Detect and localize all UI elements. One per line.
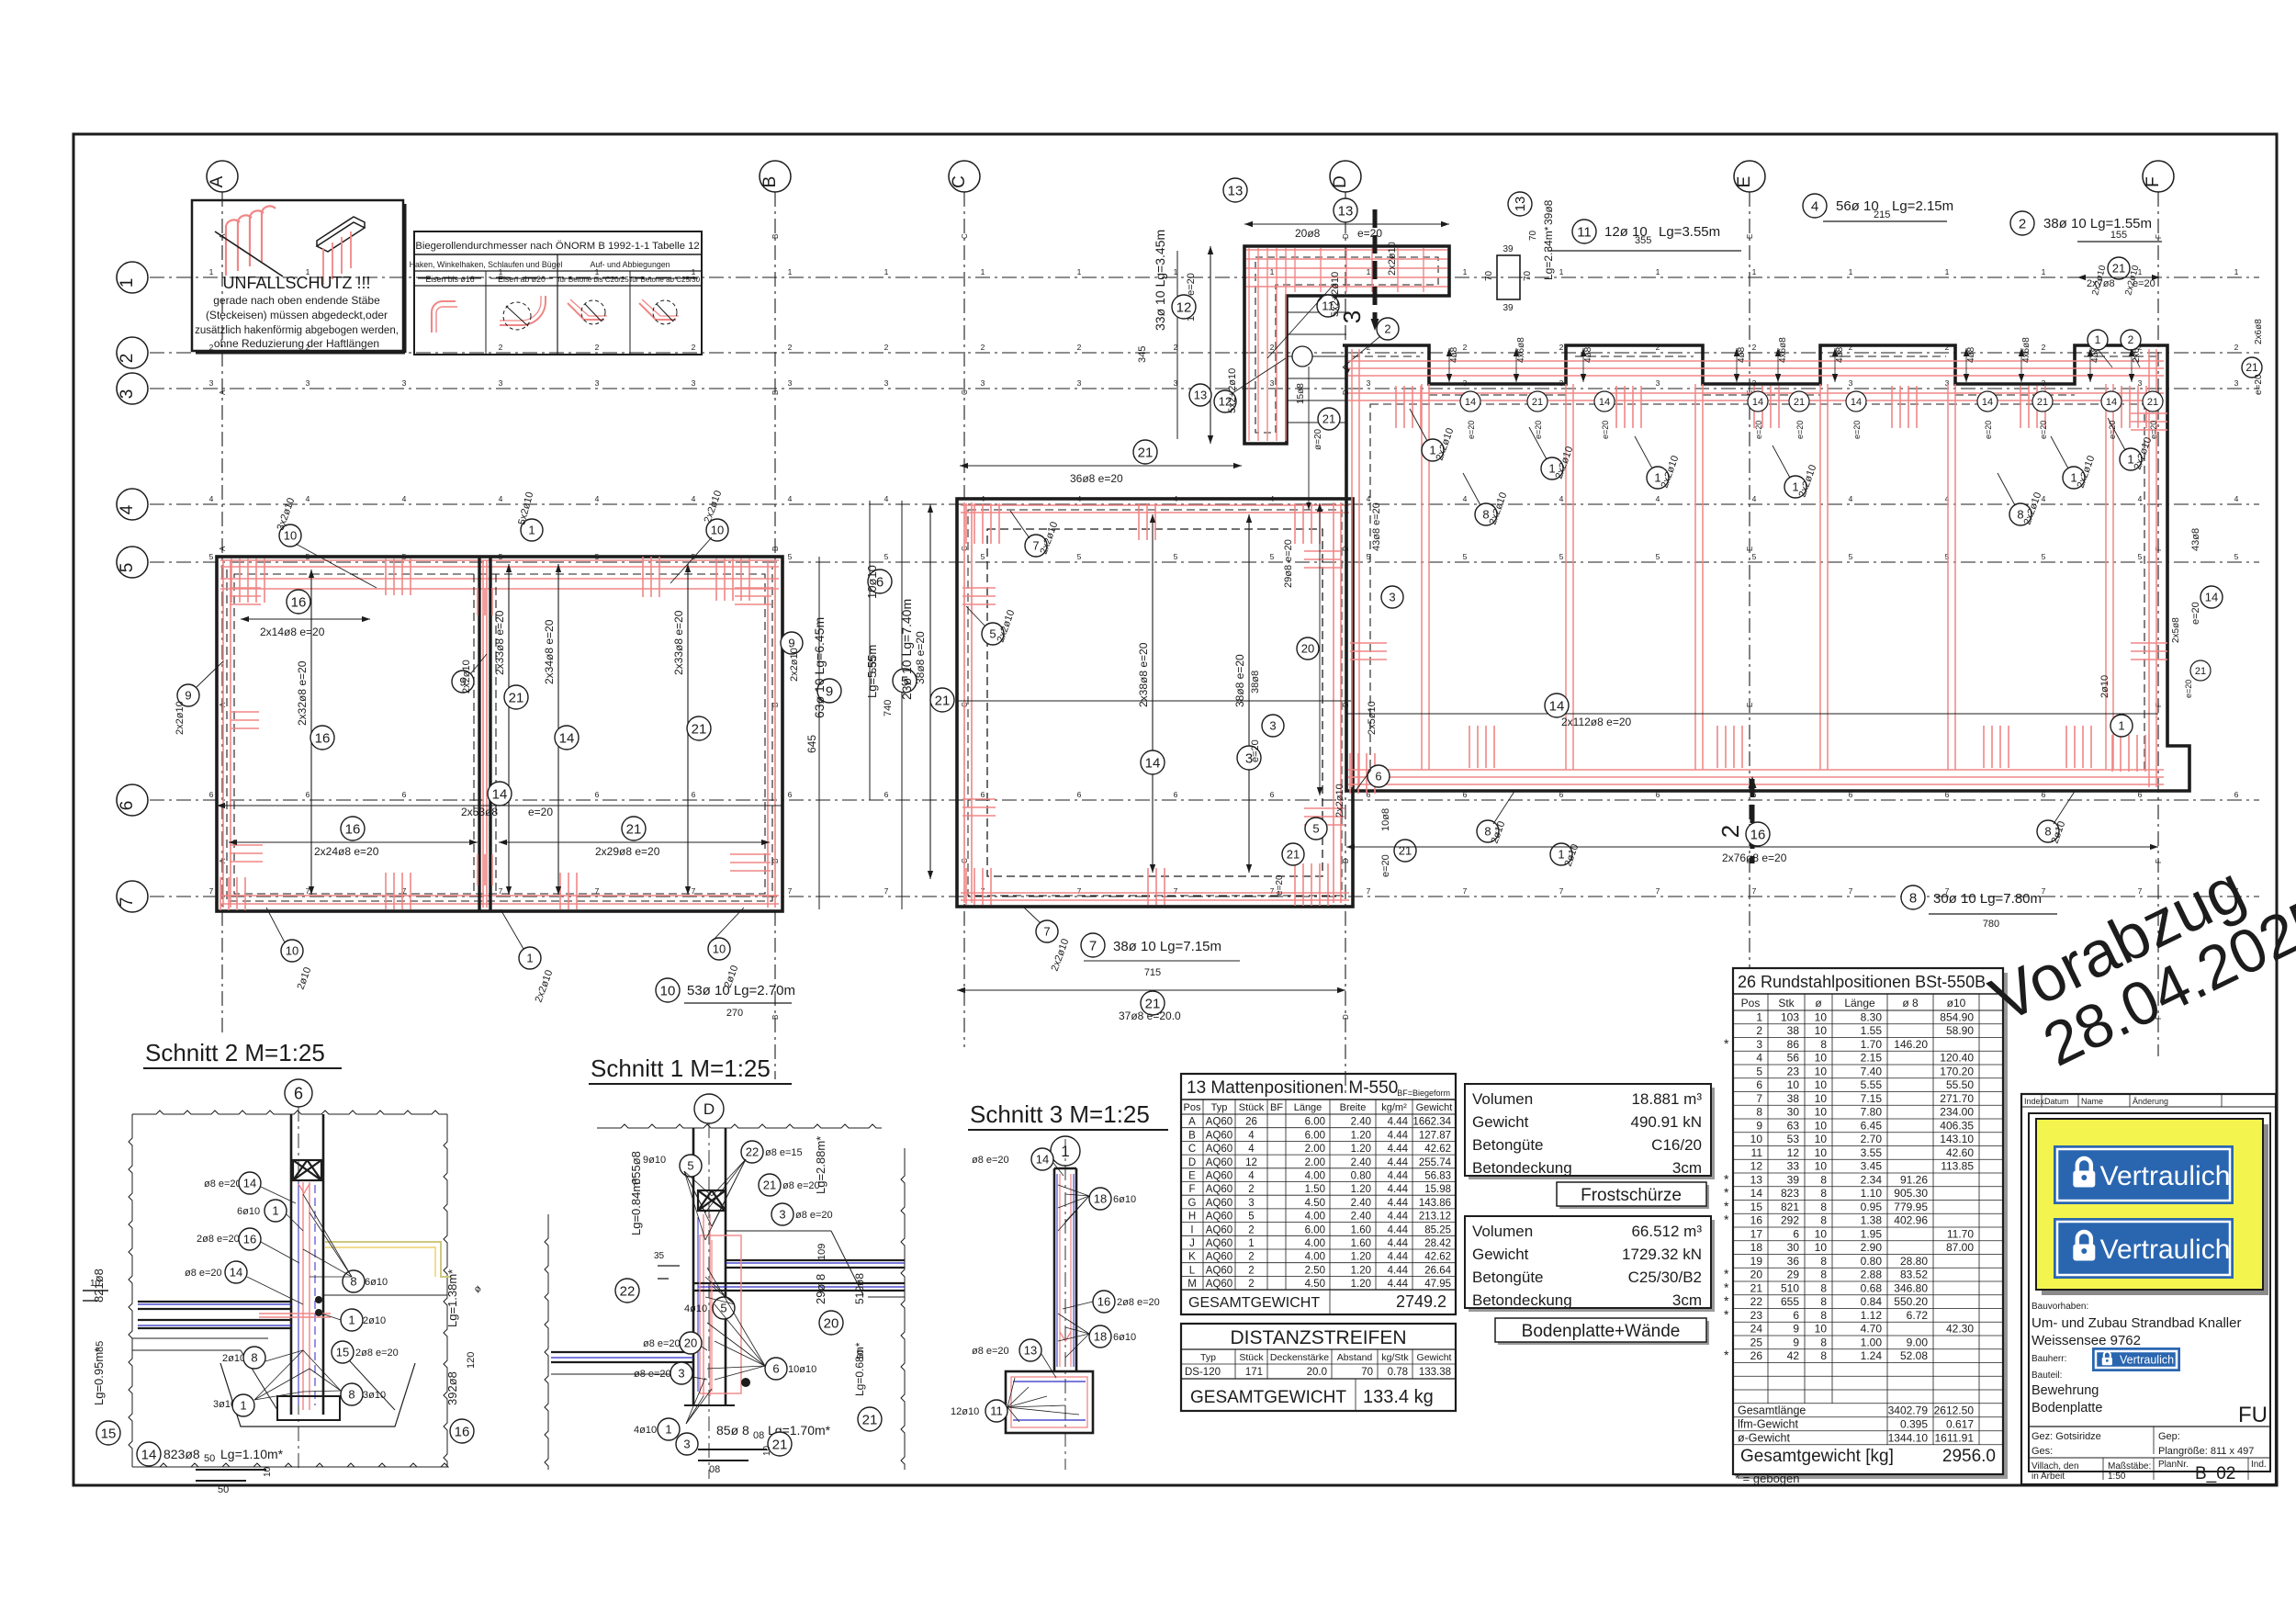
svg-text:1: 1 xyxy=(1463,267,1468,276)
svg-text:10: 10 xyxy=(1815,1160,1828,1173)
svg-text:10: 10 xyxy=(713,942,726,956)
svg-text:56: 56 xyxy=(1787,1052,1800,1065)
svg-text:DISTANZSTREIFEN: DISTANZSTREIFEN xyxy=(1230,1327,1406,1348)
svg-text:5: 5 xyxy=(788,552,793,561)
svg-text:Lg=5.55m: Lg=5.55m xyxy=(865,645,879,698)
svg-text:5: 5 xyxy=(1756,1065,1762,1077)
svg-text:20: 20 xyxy=(684,1336,697,1350)
svg-text:21: 21 xyxy=(1750,1281,1763,1294)
svg-text:ø8 e=20: ø8 e=20 xyxy=(972,1346,1009,1357)
svg-text:kg/m²: kg/m² xyxy=(1381,1102,1407,1113)
svg-text:F: F xyxy=(1188,1184,1195,1195)
svg-text:5: 5 xyxy=(1077,552,1082,561)
svg-text:0.78: 0.78 xyxy=(1388,1367,1408,1378)
svg-text:0.80: 0.80 xyxy=(1861,1255,1883,1268)
svg-text:1: 1 xyxy=(2118,719,2124,733)
svg-text:2x38ø8 e=20: 2x38ø8 e=20 xyxy=(1137,642,1150,707)
svg-text:ø=20: ø=20 xyxy=(1313,428,1323,450)
svg-text:14: 14 xyxy=(230,1266,242,1280)
svg-text:K: K xyxy=(1188,1252,1196,1263)
svg-text:1: 1 xyxy=(1752,267,1757,276)
svg-text:38: 38 xyxy=(1787,1092,1800,1105)
svg-text:2ø8 e=20: 2ø8 e=20 xyxy=(1117,1297,1160,1308)
svg-text:C16/20: C16/20 xyxy=(1651,1136,1702,1154)
svg-text:7: 7 xyxy=(1752,886,1757,896)
svg-text:6: 6 xyxy=(402,790,407,799)
svg-text:1: 1 xyxy=(1559,267,1564,276)
svg-text:1.10: 1.10 xyxy=(1861,1187,1883,1200)
svg-text:14: 14 xyxy=(1599,397,1610,408)
svg-text:3: 3 xyxy=(779,1208,785,1222)
svg-text:4: 4 xyxy=(595,494,600,503)
svg-text:Lg=2.88m*: Lg=2.88m* xyxy=(814,1136,827,1194)
svg-text:e=20: e=20 xyxy=(2254,374,2264,395)
svg-text:4.44: 4.44 xyxy=(1388,1144,1409,1155)
svg-text:823: 823 xyxy=(1781,1187,1799,1200)
svg-text:in Arbeit: in Arbeit xyxy=(2032,1472,2065,1482)
svg-text:6ø10: 6ø10 xyxy=(237,1206,260,1217)
svg-text:12: 12 xyxy=(1787,1146,1800,1159)
svg-text:5.55: 5.55 xyxy=(1861,1078,1883,1091)
svg-text:Auf- und Abbiegungen: Auf- und Abbiegungen xyxy=(590,260,670,269)
svg-text:9: 9 xyxy=(1793,1336,1799,1348)
svg-text:2: 2 xyxy=(1270,343,1275,352)
svg-text:402.96: 402.96 xyxy=(1894,1214,1928,1227)
svg-text:23ø 10 Lg=7.40m: 23ø 10 Lg=7.40m xyxy=(899,599,914,700)
svg-text:e=20: e=20 xyxy=(2149,421,2158,439)
svg-text:7.80: 7.80 xyxy=(1861,1106,1883,1119)
svg-text:20: 20 xyxy=(1750,1269,1763,1281)
svg-text:5x2+2ø10: 5x2+2ø10 xyxy=(1330,272,1341,317)
svg-text:2.40: 2.40 xyxy=(1351,1212,1371,1223)
svg-text:510: 510 xyxy=(1781,1281,1799,1294)
svg-text:14: 14 xyxy=(492,786,508,802)
svg-text:3: 3 xyxy=(678,1367,684,1381)
svg-text:155: 155 xyxy=(2110,230,2127,241)
svg-text:5: 5 xyxy=(1312,822,1319,836)
svg-text:6: 6 xyxy=(209,790,214,799)
svg-text:70: 70 xyxy=(1484,270,1494,281)
svg-text:15ø8: 15ø8 xyxy=(1296,383,1306,404)
svg-text:AQ60: AQ60 xyxy=(1206,1198,1232,1209)
svg-text:21: 21 xyxy=(2112,262,2125,276)
svg-text:A: A xyxy=(1188,1117,1196,1128)
svg-text:4.70: 4.70 xyxy=(1861,1323,1883,1336)
svg-text:L: L xyxy=(1189,1265,1196,1276)
svg-text:D: D xyxy=(1331,175,1350,188)
svg-text:171: 171 xyxy=(1245,1367,1263,1378)
svg-text:1: 1 xyxy=(1945,267,1950,276)
svg-text:55.50: 55.50 xyxy=(1946,1078,1974,1091)
svg-text:3cm: 3cm xyxy=(1672,1159,1702,1177)
svg-text:2: 2 xyxy=(595,343,600,352)
svg-text:Bewehrung: Bewehrung xyxy=(2032,1383,2099,1398)
svg-text:2x33ø8 e=20: 2x33ø8 e=20 xyxy=(672,610,685,675)
svg-text:F: F xyxy=(2155,859,2163,863)
svg-text:10: 10 xyxy=(1815,1106,1828,1119)
svg-text:4: 4 xyxy=(1849,494,1853,503)
svg-text:7: 7 xyxy=(1656,886,1660,896)
svg-text:4.44: 4.44 xyxy=(1388,1224,1409,1235)
svg-text:1: 1 xyxy=(788,267,793,276)
svg-text:2.15: 2.15 xyxy=(1861,1052,1883,1065)
svg-text:2x2ø10: 2x2ø10 xyxy=(1334,784,1345,818)
svg-text:Haken, Winkelhaken, Schlaufen: Haken, Winkelhaken, Schlaufen und Bügel xyxy=(410,260,563,269)
svg-text:Ind.: Ind. xyxy=(2251,1460,2267,1470)
svg-text:29: 29 xyxy=(1787,1269,1800,1281)
svg-text:e=20: e=20 xyxy=(1467,421,1476,439)
svg-text:2: 2 xyxy=(1716,825,1744,838)
svg-text:AQ60: AQ60 xyxy=(1206,1224,1232,1235)
svg-text:11: 11 xyxy=(990,1404,1003,1418)
svg-text:Betongüte: Betongüte xyxy=(1472,1136,1544,1154)
svg-text:Gez: Gotsiridze: Gez: Gotsiridze xyxy=(2032,1431,2101,1442)
svg-text:Pos: Pos xyxy=(1741,997,1761,1009)
svg-text:7: 7 xyxy=(1174,886,1178,896)
svg-text:70: 70 xyxy=(1361,1367,1373,1378)
svg-text:10: 10 xyxy=(762,1445,772,1456)
svg-text:e=20: e=20 xyxy=(2039,421,2048,439)
svg-text:3: 3 xyxy=(306,378,310,388)
svg-text:Lg=3.55m: Lg=3.55m xyxy=(1659,224,1720,240)
svg-text:7: 7 xyxy=(1463,886,1468,896)
svg-text:38: 38 xyxy=(1787,1024,1800,1037)
svg-text:e=20: e=20 xyxy=(1357,227,1382,240)
svg-text:5: 5 xyxy=(1463,552,1468,561)
svg-text:42.30: 42.30 xyxy=(1946,1323,1974,1336)
svg-text:38ø 10 Lg=1.55m: 38ø 10 Lg=1.55m xyxy=(2043,216,2152,231)
svg-text:26: 26 xyxy=(1750,1349,1763,1362)
svg-text:406.35: 406.35 xyxy=(1940,1119,1974,1132)
svg-text:3.55: 3.55 xyxy=(1861,1146,1883,1159)
svg-text:18.881 m³: 18.881 m³ xyxy=(1631,1090,1702,1108)
svg-text:1: 1 xyxy=(2042,267,2046,276)
svg-text:21: 21 xyxy=(1794,397,1805,408)
svg-text:10: 10 xyxy=(1815,1241,1828,1254)
svg-text:G: G xyxy=(1188,1198,1197,1209)
svg-text:21: 21 xyxy=(626,821,642,837)
svg-text:21: 21 xyxy=(1399,844,1412,858)
svg-text:Gep:: Gep: xyxy=(2158,1431,2180,1442)
svg-text:21: 21 xyxy=(772,1437,788,1452)
svg-text:e=20: e=20 xyxy=(1534,421,1543,439)
svg-text:3: 3 xyxy=(1389,591,1395,604)
svg-text:1: 1 xyxy=(665,1423,671,1437)
svg-text:4: 4 xyxy=(209,494,214,503)
svg-text:11: 11 xyxy=(1751,1146,1763,1159)
svg-text:2.50: 2.50 xyxy=(1305,1265,1325,1276)
svg-text:2x32ø8 e=20: 2x32ø8 e=20 xyxy=(296,660,309,726)
svg-text:14: 14 xyxy=(2106,397,2117,408)
svg-text:0.95: 0.95 xyxy=(1861,1201,1883,1213)
svg-text:2: 2 xyxy=(1463,343,1468,352)
svg-text:8: 8 xyxy=(1820,1038,1827,1051)
svg-text:16: 16 xyxy=(315,730,331,746)
svg-text:234.00: 234.00 xyxy=(1940,1106,1974,1119)
svg-text:14: 14 xyxy=(1982,397,1993,408)
svg-text:19: 19 xyxy=(1750,1255,1763,1268)
svg-text:345: 345 xyxy=(1137,346,1148,363)
svg-text:355: 355 xyxy=(1635,235,1651,246)
svg-text:292: 292 xyxy=(1781,1214,1799,1227)
svg-text:83.52: 83.52 xyxy=(1900,1269,1928,1281)
svg-text:21: 21 xyxy=(862,1412,878,1427)
svg-text:2x53ø8: 2x53ø8 xyxy=(461,806,498,818)
svg-text:2x33ø8 e=20: 2x33ø8 e=20 xyxy=(493,610,506,675)
svg-text:6.00: 6.00 xyxy=(1305,1117,1325,1128)
svg-text:AQ60: AQ60 xyxy=(1206,1184,1232,1195)
svg-text:22: 22 xyxy=(620,1283,636,1299)
svg-text:14: 14 xyxy=(1851,397,1862,408)
svg-text:9ø10: 9ø10 xyxy=(643,1155,666,1166)
svg-text:16: 16 xyxy=(1750,827,1766,842)
svg-text:28.42: 28.42 xyxy=(1424,1238,1451,1249)
svg-text:1.24: 1.24 xyxy=(1861,1349,1883,1362)
svg-text:7: 7 xyxy=(1367,886,1371,896)
svg-text:1: 1 xyxy=(1077,267,1082,276)
svg-text:5: 5 xyxy=(981,552,985,561)
svg-text:39ø8: 39ø8 xyxy=(1542,199,1555,225)
svg-text:6ø10: 6ø10 xyxy=(1113,1194,1136,1205)
svg-text:8: 8 xyxy=(1820,1336,1827,1348)
svg-text:4x6ø8: 4x6ø8 xyxy=(2021,337,2032,363)
svg-text:e=20: e=20 xyxy=(1754,421,1763,439)
svg-text:F: F xyxy=(2155,234,2163,239)
svg-text:3: 3 xyxy=(1367,378,1371,388)
svg-text:39: 39 xyxy=(1787,1173,1800,1186)
svg-text:Schnitt 2 M=1:25: Schnitt 2 M=1:25 xyxy=(145,1039,325,1066)
svg-text:43ø8: 43ø8 xyxy=(2190,528,2201,551)
svg-text:Gewicht: Gewicht xyxy=(1417,1352,1452,1363)
svg-text:9: 9 xyxy=(826,683,833,699)
svg-text:Länge: Länge xyxy=(1844,997,1875,1009)
svg-text:e=20: e=20 xyxy=(2190,602,2201,625)
svg-text:4: 4 xyxy=(306,494,310,503)
svg-text:4.44: 4.44 xyxy=(1388,1157,1409,1168)
svg-text:22: 22 xyxy=(1750,1295,1763,1308)
svg-text:e=20: e=20 xyxy=(1852,421,1862,439)
svg-text:3: 3 xyxy=(1849,378,1853,388)
svg-text:Biegerollendurchmesser nach ÖN: Biegerollendurchmesser nach ÖNORM B 1992… xyxy=(415,241,699,252)
svg-text:14: 14 xyxy=(1145,755,1161,771)
svg-text:Bauteil:: Bauteil: xyxy=(2032,1370,2062,1381)
svg-text:14: 14 xyxy=(559,730,575,746)
svg-text:13: 13 xyxy=(1338,203,1354,219)
svg-text:6: 6 xyxy=(2234,790,2239,799)
svg-text:5: 5 xyxy=(1752,552,1757,561)
svg-text:Eisen ab ø20: Eisen ab ø20 xyxy=(498,275,546,284)
svg-text:E: E xyxy=(1188,1171,1196,1182)
svg-text:2: 2 xyxy=(1248,1279,1254,1290)
svg-text:2x34ø8 e=20: 2x34ø8 e=20 xyxy=(543,619,556,684)
svg-text:15: 15 xyxy=(336,1346,349,1359)
svg-text:Bodenplatte+Wände: Bodenplatte+Wände xyxy=(1522,1322,1681,1341)
svg-text:1.50: 1.50 xyxy=(1305,1184,1325,1195)
svg-text:0.395: 0.395 xyxy=(1900,1417,1928,1430)
svg-text:1: 1 xyxy=(526,952,533,965)
svg-text:823ø8: 823ø8 xyxy=(163,1447,200,1461)
svg-text:4: 4 xyxy=(1752,494,1757,503)
svg-text:2ø10: 2ø10 xyxy=(222,1353,245,1364)
svg-text:3: 3 xyxy=(1945,378,1950,388)
svg-text:1: 1 xyxy=(1558,848,1564,862)
svg-text:E: E xyxy=(1735,176,1754,188)
svg-text:e=20: e=20 xyxy=(528,806,553,818)
svg-text:AQ60: AQ60 xyxy=(1206,1144,1232,1155)
svg-text:1: 1 xyxy=(2234,267,2239,276)
svg-text:Schnitt 1 M=1:25: Schnitt 1 M=1:25 xyxy=(591,1054,771,1082)
svg-text:10: 10 xyxy=(1815,1092,1828,1105)
svg-text:1: 1 xyxy=(240,1399,246,1413)
svg-text:12: 12 xyxy=(1245,1157,1257,1168)
svg-text:6: 6 xyxy=(981,790,985,799)
svg-text:821: 821 xyxy=(1781,1201,1799,1213)
svg-text:zusätzlich hakenförmig abgebog: zusätzlich hakenförmig abgebogen werden, xyxy=(195,325,399,336)
svg-text:6: 6 xyxy=(1375,770,1381,784)
svg-text:5: 5 xyxy=(209,552,214,561)
svg-text:Breite: Breite xyxy=(1340,1102,1367,1113)
svg-text:ø8 e=20: ø8 e=20 xyxy=(795,1210,833,1221)
svg-text:5: 5 xyxy=(118,563,137,573)
svg-text:10: 10 xyxy=(660,983,676,998)
svg-text:Volumen: Volumen xyxy=(1472,1090,1533,1108)
svg-text:1.95: 1.95 xyxy=(1861,1227,1883,1240)
svg-text:8: 8 xyxy=(1820,1201,1827,1213)
svg-text:8: 8 xyxy=(1820,1187,1827,1200)
svg-text:42.60: 42.60 xyxy=(1946,1146,1974,1159)
svg-text:PlanNr.: PlanNr. xyxy=(2158,1460,2189,1470)
svg-text:346.80: 346.80 xyxy=(1894,1281,1928,1294)
svg-text:4: 4 xyxy=(884,494,889,503)
svg-text:Lg=2.15m: Lg=2.15m xyxy=(1892,198,1953,214)
svg-text:50: 50 xyxy=(204,1453,215,1464)
svg-text:63ø 10 Lg=6.45m: 63ø 10 Lg=6.45m xyxy=(812,617,827,718)
svg-text:2x112ø8 e=20: 2x112ø8 e=20 xyxy=(1561,716,1631,728)
svg-text:1.55: 1.55 xyxy=(1861,1024,1883,1037)
svg-text:1: 1 xyxy=(1248,1238,1254,1249)
svg-text:B: B xyxy=(771,547,780,551)
svg-text:C25/30/B2: C25/30/B2 xyxy=(1628,1269,1702,1286)
svg-text:1: 1 xyxy=(2095,333,2101,346)
svg-text:3: 3 xyxy=(788,378,793,388)
svg-text:1.70: 1.70 xyxy=(1861,1038,1883,1051)
svg-text:1: 1 xyxy=(1849,267,1853,276)
svg-text:3: 3 xyxy=(499,378,503,388)
svg-text:M: M xyxy=(1187,1279,1197,1290)
svg-text:4: 4 xyxy=(1463,494,1468,503)
svg-text:Lg=1.38m*: Lg=1.38m* xyxy=(445,1269,459,1327)
svg-text:3: 3 xyxy=(118,389,137,400)
svg-text:1: 1 xyxy=(1756,1010,1762,1023)
svg-text:Lg=0.68m*: Lg=0.68m* xyxy=(853,1342,866,1396)
svg-text:3: 3 xyxy=(1656,378,1660,388)
svg-text:Frostschürze: Frostschürze xyxy=(1581,1186,1682,1205)
svg-text:Vertraulich: Vertraulich xyxy=(2100,1161,2231,1191)
svg-text:10: 10 xyxy=(1750,1133,1763,1145)
svg-text:20: 20 xyxy=(1301,642,1314,656)
svg-text:10: 10 xyxy=(1815,1227,1828,1240)
svg-text:*: * xyxy=(1724,1212,1729,1227)
svg-text:*: * xyxy=(1724,1185,1729,1200)
svg-text:e=20: e=20 xyxy=(1795,421,1805,439)
svg-text:4.44: 4.44 xyxy=(1388,1279,1409,1290)
svg-text:Typ: Typ xyxy=(1200,1352,1216,1363)
svg-text:21: 21 xyxy=(1287,848,1300,862)
svg-text:6ø10: 6ø10 xyxy=(1113,1332,1136,1343)
svg-text:14: 14 xyxy=(141,1447,157,1462)
svg-text:6: 6 xyxy=(595,790,600,799)
svg-text:8: 8 xyxy=(2044,825,2051,839)
svg-text:5: 5 xyxy=(2042,552,2046,561)
svg-text:6: 6 xyxy=(884,790,889,799)
svg-text:ø: ø xyxy=(1815,997,1822,1009)
svg-text:4: 4 xyxy=(2138,494,2143,503)
svg-text:5: 5 xyxy=(687,1159,693,1173)
svg-text:AQ60: AQ60 xyxy=(1206,1157,1232,1168)
svg-text:AQ60: AQ60 xyxy=(1206,1252,1232,1263)
svg-text:4ø10: 4ø10 xyxy=(684,1303,707,1314)
svg-text:10ø8: 10ø8 xyxy=(1380,808,1391,831)
svg-text:9: 9 xyxy=(1793,1323,1799,1336)
svg-text:B: B xyxy=(760,176,780,188)
svg-text:4x6ø8: 4x6ø8 xyxy=(1516,337,1526,363)
svg-text:1.00: 1.00 xyxy=(1861,1336,1883,1348)
svg-text:7: 7 xyxy=(1559,886,1564,896)
svg-text:91.26: 91.26 xyxy=(1900,1173,1928,1186)
svg-text:* = gebogen: * = gebogen xyxy=(1735,1472,1799,1485)
svg-text:4ø10: 4ø10 xyxy=(634,1425,657,1436)
svg-text:7: 7 xyxy=(1270,886,1275,896)
svg-text:Villach, den: Villach, den xyxy=(2032,1461,2079,1472)
svg-text:127.87: 127.87 xyxy=(1419,1130,1451,1141)
svg-text:1: 1 xyxy=(272,1204,278,1218)
svg-text:3: 3 xyxy=(1338,310,1366,323)
svg-text:Gesamtlänge: Gesamtlänge xyxy=(1738,1404,1806,1416)
svg-text:143.86: 143.86 xyxy=(1419,1198,1451,1209)
svg-text:3: 3 xyxy=(981,378,985,388)
svg-text:2x2ø10: 2x2ø10 xyxy=(174,701,186,735)
svg-text:8: 8 xyxy=(1820,1295,1827,1308)
svg-text:26.64: 26.64 xyxy=(1424,1265,1451,1276)
svg-text:87.00: 87.00 xyxy=(1946,1241,1974,1254)
svg-text:2: 2 xyxy=(884,343,889,352)
svg-text:3: 3 xyxy=(683,1438,690,1451)
svg-text:43ø8 e=20: 43ø8 e=20 xyxy=(1371,502,1382,551)
svg-text:*: * xyxy=(1724,1307,1729,1322)
svg-text:A: A xyxy=(208,175,227,187)
svg-text:Um- und Zubau Strandbad Kn: Um- und Zubau Strandbad Knaller xyxy=(2032,1315,2241,1331)
svg-text:2: 2 xyxy=(2042,343,2046,352)
svg-text:8: 8 xyxy=(1756,1106,1762,1119)
svg-text:Ges:: Ges: xyxy=(2032,1446,2053,1457)
svg-text:2: 2 xyxy=(2019,216,2026,231)
svg-text:21: 21 xyxy=(1532,397,1543,408)
svg-text:*: * xyxy=(1724,1267,1729,1281)
svg-text:10: 10 xyxy=(286,944,298,958)
svg-text:Gesamtgewicht [kg]: Gesamtgewicht [kg] xyxy=(1740,1447,1894,1466)
svg-text:8: 8 xyxy=(1820,1255,1827,1268)
svg-text:9.00: 9.00 xyxy=(1907,1336,1929,1348)
svg-text:56ø 10: 56ø 10 xyxy=(1836,198,1879,214)
svg-text:UNFALLSCHUTZ !!!: UNFALLSCHUTZ !!! xyxy=(222,274,370,292)
svg-text:*: * xyxy=(1724,1293,1729,1308)
svg-text:D: D xyxy=(1342,1014,1350,1020)
svg-text:85.25: 85.25 xyxy=(1424,1224,1451,1235)
svg-text:3: 3 xyxy=(1248,1198,1254,1209)
svg-text:2x6ø8: 2x6ø8 xyxy=(2254,319,2264,344)
svg-text:21: 21 xyxy=(2147,397,2158,408)
svg-text:4: 4 xyxy=(118,504,137,514)
